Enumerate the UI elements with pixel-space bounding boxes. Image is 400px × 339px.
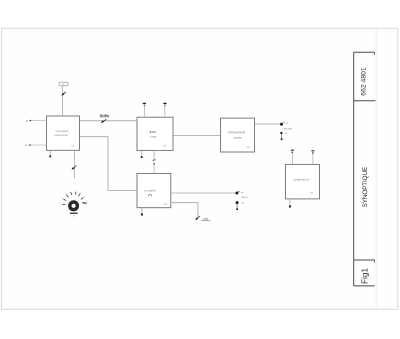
adjust arrow A3 on shaft	[72, 166, 77, 170]
adjust arrow A1	[62, 92, 66, 96]
svg-text:000000000 00000000000 000000: 000000000 00000000000 000000	[14, 53, 68, 57]
output note 50 ohm	[284, 129, 292, 131]
svg-text:5: 5	[76, 192, 77, 194]
block U3 modulateur	[137, 174, 171, 208]
knob base label	[73, 215, 75, 217]
svg-text:a2: a2	[285, 133, 287, 135]
title block divider top	[354, 52, 375, 55]
block U4 attenuateur calibre	[221, 118, 255, 152]
input terminal IN2 dot	[29, 144, 31, 146]
knob body	[70, 202, 78, 210]
mains terminal bar over U5 pin2	[311, 150, 314, 154]
output terminal J1 label	[286, 123, 288, 125]
stub U2 bottom to ground square	[141, 150, 143, 156]
svg-text:1: 1	[59, 204, 60, 206]
svg-text:T03: T03	[164, 204, 167, 206]
wire U2 to U3 with connector	[153, 150, 156, 173]
wire label box to U1 top	[62, 86, 64, 116]
faint stamp smudge top-left	[14, 48, 68, 57]
svg-text:OSCILLATEUR: OSCILLATEUR	[56, 130, 70, 133]
ground square under U2	[141, 156, 143, 158]
part number 662 4801	[360, 67, 367, 96]
wire U2 to U4	[173, 135, 221, 137]
wire U3 output2 down	[171, 203, 198, 218]
svg-text:T04: T04	[247, 147, 250, 149]
svg-text:CONTROLE HF: CONTROLE HF	[54, 135, 68, 137]
link J2 to ground dot	[281, 134, 283, 138]
svg-text:a1: a1	[286, 123, 288, 125]
svg-text:4: 4	[71, 192, 72, 194]
terminal J2 square	[280, 132, 282, 134]
stub U3 bottom to ground square	[141, 208, 143, 214]
svg-text:b1: b1	[26, 120, 28, 122]
output terminal J1 dot	[280, 122, 285, 125]
input terminal IN1 dot	[30, 120, 32, 122]
svg-text:T05: T05	[310, 193, 313, 195]
svg-text:Ampli.: Ampli.	[150, 131, 157, 134]
svg-text:50Ω (1): 50Ω (1)	[241, 197, 247, 199]
stub U5 bottom to ground square	[289, 199, 291, 206]
ground dot under J2	[281, 138, 283, 140]
svg-text:MODULATEUR: MODULATEUR	[144, 189, 156, 192]
terminal J4 label	[242, 202, 244, 204]
output terminal J3 dot	[236, 191, 241, 194]
svg-text:50Ω 1mW: 50Ω 1mW	[284, 129, 292, 131]
svg-text:a3: a3	[241, 192, 243, 194]
ground square under U1	[49, 156, 51, 158]
wire U5 pin2 stub	[312, 153, 314, 164]
title SYNOPTIQUE	[362, 167, 369, 208]
terminal bar over U2 pin1	[143, 103, 146, 106]
svg-text:00000000 000000 0000: 00000000 000000 0000	[14, 48, 52, 52]
output note under J3	[241, 197, 247, 199]
wire U5 pin1 stub	[291, 153, 293, 165]
svg-text:ATTENUATEUR: ATTENUATEUR	[228, 132, 246, 135]
wire U2 pin1 stub	[143, 106, 145, 117]
svg-text:3: 3	[66, 194, 67, 196]
knob base bar	[70, 213, 78, 214]
link J4 to ground dot	[236, 204, 238, 208]
svg-text:a4: a4	[242, 202, 244, 204]
mains terminal bar over U5 pin1	[291, 150, 294, 154]
adjust arrow A4	[195, 216, 200, 220]
knob tick labels	[59, 192, 87, 206]
ground square under U5	[289, 206, 291, 208]
wire U1 to U3 (down path)	[80, 137, 138, 191]
wire input2 to U1	[31, 144, 47, 146]
ground square under U3	[141, 214, 143, 216]
figure label Fig1	[360, 267, 369, 283]
wire U4 output	[255, 123, 281, 125]
terminal J2 label	[285, 133, 287, 135]
svg-text:T02: T02	[163, 145, 166, 147]
wire U3 output1	[171, 192, 236, 194]
svg-text:ETAGE: ETAGE	[150, 135, 157, 138]
wire input1 to U1	[31, 120, 47, 122]
input terminal IN1 label	[26, 120, 28, 122]
wire U2 pin2 stub	[164, 106, 166, 117]
knob pointer	[69, 207, 72, 209]
svg-text:6: 6	[80, 193, 81, 195]
svg-text:ALIMENTATION: ALIMENTATION	[294, 178, 310, 181]
label near A4	[201, 218, 210, 220]
svg-text:Fig1: Fig1	[360, 267, 369, 283]
title block divider above Fig1	[354, 260, 375, 262]
adjust arrow A2 on wire	[101, 119, 106, 123]
svg-text:662 4801: 662 4801	[360, 67, 367, 96]
svg-text:CALIBRE: CALIBRE	[233, 137, 243, 140]
svg-text:7: 7	[84, 197, 85, 199]
knob arrow right	[83, 203, 87, 205]
block U1 oscillateur	[47, 116, 80, 150]
terminal J4 dot	[236, 201, 239, 204]
net label 462 MHz	[100, 115, 110, 118]
adjust label box above U1	[59, 82, 68, 86]
block U2 ampli	[137, 117, 173, 150]
svg-text:2: 2	[62, 198, 63, 200]
knob rotary switch ticks	[62, 192, 85, 205]
ground dot under J4	[236, 208, 238, 210]
stub U1 bottom to ground square	[49, 150, 51, 155]
faint fold line right	[375, 28, 377, 309]
title block divider under part number	[354, 100, 376, 102]
input terminal IN2 label	[25, 145, 27, 147]
svg-text:S1: S1	[73, 215, 75, 217]
block U5 alimentation	[286, 164, 320, 199]
mechanical shaft line below U1	[73, 150, 75, 178]
svg-text:T01: T01	[71, 146, 74, 148]
svg-text:SYNOPTIQUE: SYNOPTIQUE	[362, 167, 369, 208]
wire U1 to U2	[80, 120, 138, 122]
title block left vertical line	[353, 52, 355, 286]
title block bottom line	[354, 285, 375, 287]
output terminal J3 label	[241, 192, 243, 194]
svg-text:F1: F1	[62, 84, 64, 86]
svg-text:b2: b2	[25, 145, 27, 147]
terminal bar over U2 pin2	[163, 103, 166, 106]
